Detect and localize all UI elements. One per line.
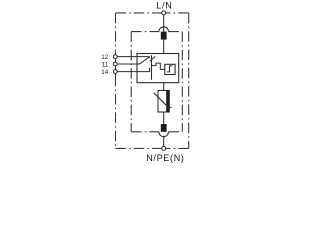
thermal disconnector blade [151,55,153,79]
step function glyph [167,66,173,72]
wire L/N terminal to top plug contact [163,15,165,32]
terminal L/N circle [162,11,166,15]
wire varistor to bottom plug contact [163,112,165,124]
thermal disconnector trip tick [150,56,155,61]
svg-text:N/PE(N): N/PE(N) [146,153,184,163]
module boundary bump over wire (bottom) [159,132,169,137]
svg-text:L/N: L/N [156,0,172,10]
signalling link (square wave) [152,63,165,69]
varistor diagonal stroke with tail [154,93,172,108]
protection module boundary (inner dash-dot box) [131,32,182,132]
wire terminal 12 to contact [117,56,150,58]
wire bottom plug contact to N/PE terminal [163,136,165,147]
terminal 12 circle [113,55,117,59]
bottom plug contact (filled) [161,124,167,132]
enclosure boundary (outer dash-dot box) [116,13,189,149]
top plug contact (filled) [161,32,167,40]
terminal 11 circle [113,62,117,66]
changeover contact blade (11 to 12) [140,57,150,64]
wire monitoring box to varistor [163,83,165,91]
wire terminal 11 to contact [117,63,139,65]
module boundary bump over wire (top) [159,27,169,32]
terminal N/PE(N) circle [162,146,166,150]
contact 14 fixed stub [149,68,151,72]
monitoring / disconnection device box [137,54,179,83]
signalling device box [165,64,175,74]
varistor thick side [166,91,169,113]
wire terminal 14 to contact [117,71,149,73]
svg-text:11: 11 [102,62,109,69]
terminal 14 circle [113,70,117,74]
svg-text:12: 12 [101,54,109,61]
varistor body [158,91,169,113]
svg-text:14: 14 [101,69,109,76]
wire top plug contact to monitoring box [163,40,165,54]
